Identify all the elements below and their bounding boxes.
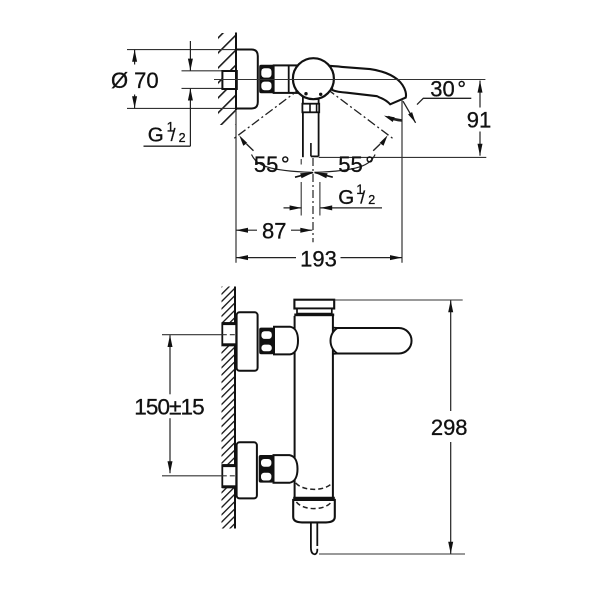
wall escutcheon flange (side view)	[236, 50, 258, 109]
dimension line G 1/2 inlet	[189, 41, 191, 71]
dimension arrows for bottom G 1/2 outlet	[284, 207, 302, 209]
wall face extension line down to 193 dimension	[235, 110, 237, 263]
svg-text:298: 298	[431, 415, 468, 440]
dimension line 193	[236, 257, 296, 259]
outlet tube rounded tip	[311, 549, 317, 555]
pin dot right on valve body	[319, 93, 322, 96]
cap flange ring (dark band)	[294, 314, 334, 317]
lower escutcheon (front view)	[237, 442, 257, 498]
lever collar (side view)	[302, 104, 319, 113]
arrowhead at right swing line	[380, 135, 388, 146]
lower inlet dome into body	[274, 455, 298, 483]
svg-text:G: G	[148, 124, 164, 147]
curved arrow of 30 degree angle	[388, 117, 402, 121]
55 degree swing line left (chain line)	[234, 79, 314, 139]
wall inlet fitting (side view)	[222, 71, 236, 89]
aerator housing top line (thick)	[293, 497, 335, 500]
svg-text:91: 91	[467, 107, 491, 132]
svg-text:87: 87	[262, 218, 286, 243]
lower wall inlet nipple (front view)	[222, 465, 236, 487]
extension line from lever tip to 91 dimension	[319, 156, 487, 158]
svg-text:150±15: 150±15	[134, 395, 204, 420]
svg-text:2: 2	[179, 131, 186, 145]
hidden aerator line (dashed)	[296, 502, 331, 509]
svg-text:/: /	[171, 125, 176, 145]
centre chain line below lever	[312, 158, 314, 242]
faucet body column (front view)	[294, 316, 296, 498]
lower nipple centre line	[162, 475, 222, 477]
extension line top of faucet for 298	[335, 299, 463, 301]
dimension line 150 plus minus 15	[169, 335, 171, 394]
svg-text:55°: 55°	[338, 152, 374, 177]
55 degree swing line right (chain line)	[313, 79, 393, 139]
lever handle (side view)	[302, 112, 304, 157]
svg-text:G: G	[338, 186, 354, 209]
upper wall inlet nipple (front view)	[222, 323, 236, 345]
extension line from spout outlet down to 193 dimension	[401, 100, 403, 263]
svg-text:55°: 55°	[254, 152, 290, 177]
cartridge cap disc on top of body	[294, 300, 334, 309]
valve body circle (side view)	[293, 58, 334, 99]
extension line bottom outlet for 298	[319, 553, 465, 555]
extension lines for G 1/2 inlet pipe	[182, 70, 223, 72]
upper escutcheon (front view)	[237, 312, 258, 371]
spout (side view)	[325, 66, 407, 105]
arrowhead at left swing line	[239, 135, 247, 146]
pin dot left on valve body	[304, 92, 307, 95]
svg-text:2: 2	[368, 193, 375, 207]
horizontal centre line of wall connection	[214, 79, 485, 81]
upper nipple centre line	[162, 334, 222, 336]
dimension line 91	[479, 81, 481, 108]
leader line of 30 degree label	[417, 98, 471, 104]
svg-text:/: /	[360, 188, 365, 208]
extension lines for diameter 70	[127, 49, 236, 51]
outlet tube below aerator	[310, 522, 312, 548]
dimension line 87	[236, 229, 257, 231]
upper union nut (front view)	[259, 328, 274, 355]
wall hatching (front view)	[222, 287, 236, 529]
svg-text:Ø 70: Ø 70	[111, 68, 159, 93]
extension lines for bottom G 1/2 outlet	[300, 159, 302, 165]
svg-text:193: 193	[300, 246, 337, 271]
wall face line (front view)	[234, 287, 236, 529]
hidden dome line inside body above outlet (dashed)	[296, 483, 332, 489]
dimension line 298	[450, 300, 452, 411]
dimension line diameter 70	[134, 50, 136, 65]
handle lever bar (front view)	[331, 328, 412, 354]
wall face line (side view)	[235, 33, 237, 111]
handle hub tick top	[333, 327, 339, 329]
lever neck lines below valve body	[302, 97, 304, 104]
spout outlet face extension line (30 degrees)	[403, 101, 416, 123]
cap lower ring	[297, 309, 332, 314]
wall hatching (side view)	[218, 33, 236, 125]
upper inlet dome into body	[274, 327, 298, 355]
55 degree dimension arc left	[252, 155, 313, 173]
55 degree dimension arc right	[314, 155, 375, 173]
svg-text:30°: 30°	[430, 77, 466, 102]
lower union nut (front view)	[259, 455, 274, 483]
handle hub tick bottom	[333, 353, 339, 355]
union nut (side view)	[259, 65, 274, 93]
arrowhead on outlet face line	[408, 112, 416, 123]
underline of G 1/2 label	[144, 145, 191, 147]
aerator housing	[293, 500, 335, 523]
body tube between nut and valve (side view)	[274, 65, 300, 93]
